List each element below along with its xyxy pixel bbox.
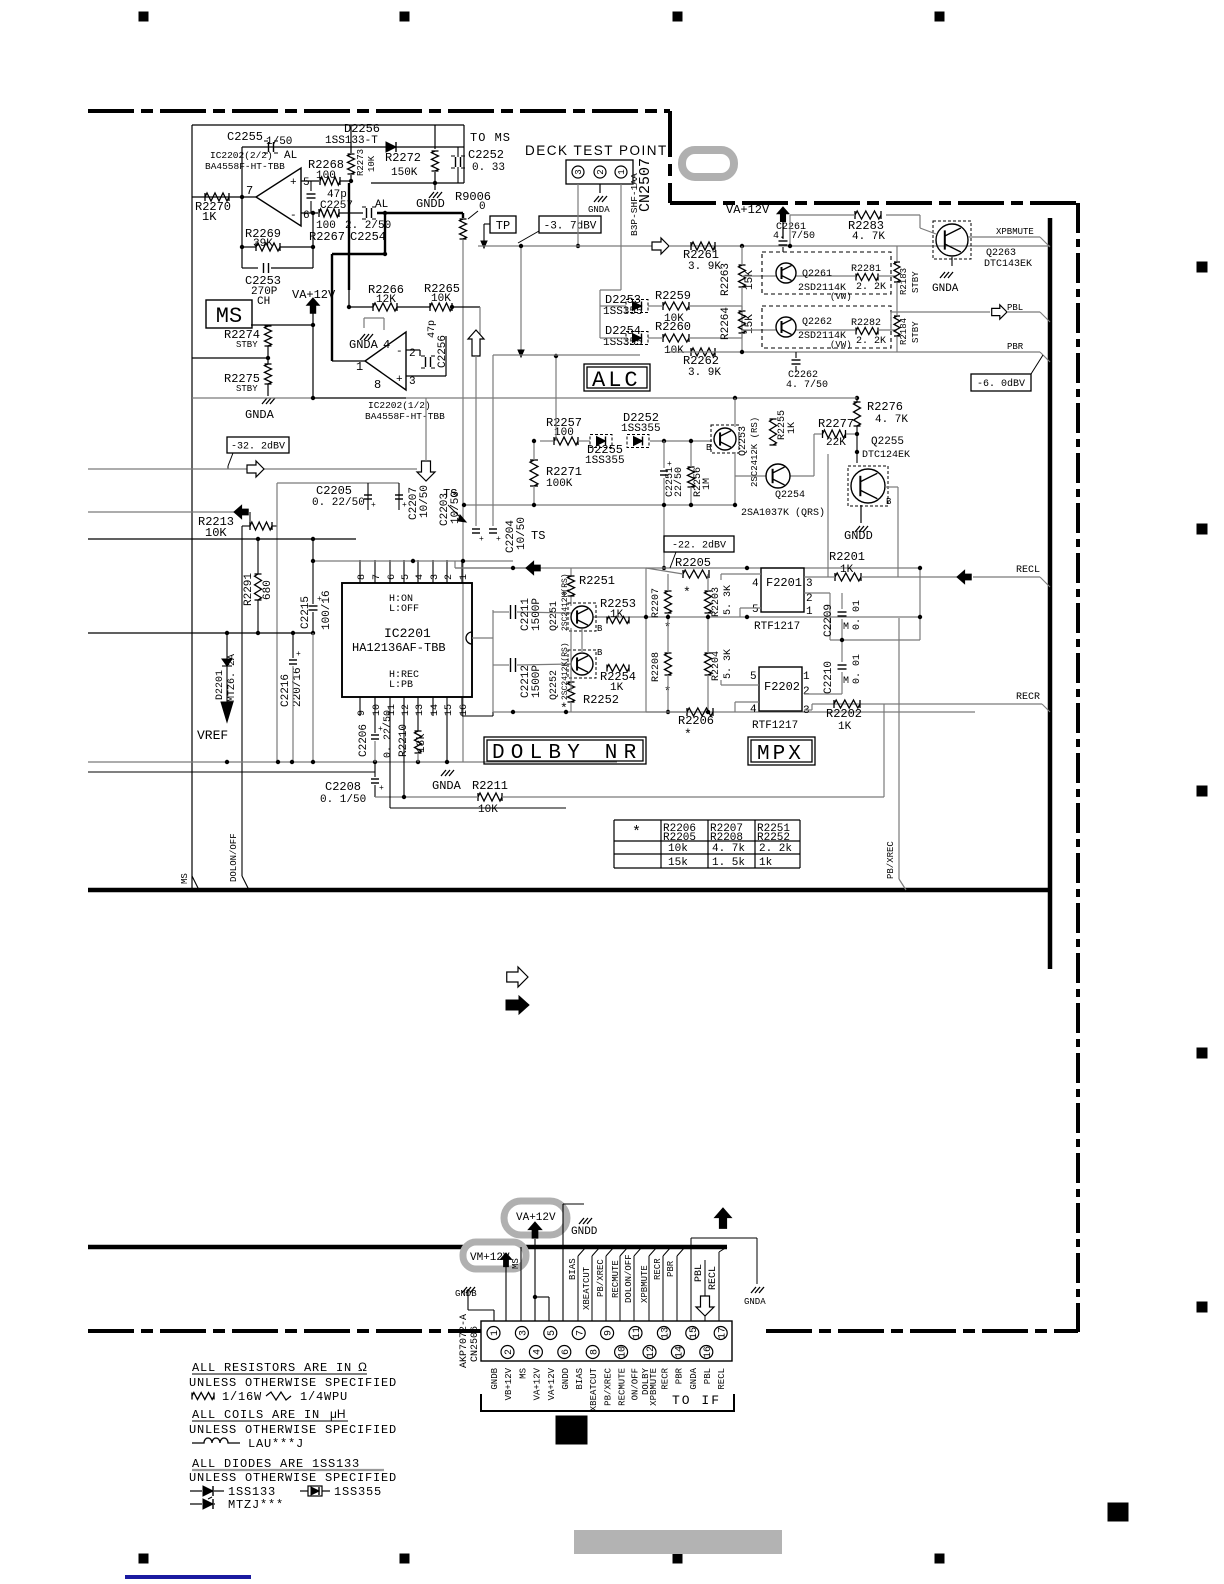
svg-text:M: M (843, 622, 849, 633)
svg-text:GNDA: GNDA (349, 338, 379, 352)
svg-text:4: 4 (415, 574, 426, 580)
svg-text:Q2255: Q2255 (871, 436, 904, 448)
svg-text:39K: 39K (253, 238, 273, 250)
svg-text:220/16: 220/16 (292, 667, 304, 707)
svg-text:4. 7k: 4. 7k (712, 843, 745, 855)
svg-text:150K: 150K (391, 167, 418, 179)
svg-text:R2203: R2203 (711, 587, 722, 617)
svg-text:B: B (886, 497, 892, 507)
svg-text:IC2202(1/2): IC2202(1/2) (368, 400, 431, 411)
svg-text:STBY: STBY (911, 321, 921, 343)
svg-text:DOLON/OFF: DOLON/OFF (229, 833, 239, 882)
svg-text:1: 1 (806, 606, 813, 618)
svg-text:R2207: R2207 (651, 588, 662, 618)
svg-text:XBEATCUT: XBEATCUT (582, 1266, 592, 1310)
svg-text:GNDD: GNDD (844, 529, 873, 543)
svg-text:GNDB: GNDB (455, 1289, 477, 1299)
svg-text:5: 5 (750, 671, 757, 683)
svg-text:R2291: R2291 (243, 573, 255, 606)
svg-text:C2252: C2252 (468, 148, 504, 162)
svg-text:1500P: 1500P (531, 665, 543, 698)
svg-text:+: + (379, 784, 384, 793)
svg-text:1: 1 (459, 574, 470, 580)
svg-text:BA4558F-HT-TBB: BA4558F-HT-TBB (205, 161, 285, 172)
svg-text:1K: 1K (838, 721, 852, 733)
svg-text:18k: 18k (416, 733, 428, 753)
svg-text:CN2507: CN2507 (637, 158, 654, 212)
svg-text:10K: 10K (478, 804, 498, 816)
svg-text:RECMUTE: RECMUTE (611, 1260, 621, 1298)
svg-text:4. 7K: 4. 7K (875, 414, 908, 426)
svg-text:GNDD: GNDD (571, 1226, 598, 1238)
svg-text:AKP7072-A: AKP7072-A (459, 1314, 470, 1368)
svg-text:XPBMUTE: XPBMUTE (996, 227, 1034, 237)
svg-text:Q2252: Q2252 (549, 670, 560, 700)
svg-text:MS: MS (180, 873, 190, 884)
svg-text:DTC124EK: DTC124EK (862, 450, 910, 461)
svg-text:14: 14 (430, 704, 441, 716)
svg-text:-: - (290, 210, 297, 222)
svg-text:2: 2 (444, 574, 455, 580)
svg-text:*: * (560, 589, 568, 604)
svg-text:13: 13 (415, 704, 426, 716)
svg-text:R2259: R2259 (655, 289, 691, 303)
svg-text:+: + (296, 650, 301, 659)
svg-text:GNDA: GNDA (932, 283, 959, 295)
svg-text:7: 7 (575, 1330, 586, 1336)
svg-text:GNDA: GNDA (588, 205, 610, 215)
svg-text:R2263: R2263 (720, 263, 732, 296)
svg-text:15: 15 (444, 704, 455, 716)
svg-text:RECL: RECL (717, 1368, 727, 1390)
svg-text:3: 3 (574, 169, 584, 174)
svg-text:μH: μH (330, 1407, 346, 1421)
svg-text:10k: 10k (668, 843, 688, 855)
svg-text:PBR: PBR (666, 1260, 676, 1277)
svg-text:RECMUTE: RECMUTE (618, 1368, 628, 1406)
svg-text:1/50: 1/50 (266, 136, 292, 148)
svg-text:D2256: D2256 (344, 122, 380, 136)
svg-text:RTF1217: RTF1217 (754, 621, 800, 633)
svg-text:UNLESS OTHERWISE SPECIFIED: UNLESS OTHERWISE SPECIFIED (189, 1471, 397, 1485)
svg-text:VA+12V: VA+12V (516, 1212, 556, 1224)
svg-text:4: 4 (383, 338, 390, 352)
svg-text:1: 1 (617, 169, 627, 174)
svg-text:R2262: R2262 (683, 354, 719, 368)
svg-text:5: 5 (547, 1330, 558, 1336)
svg-text:17: 17 (717, 1327, 728, 1339)
svg-text:C2257: C2257 (320, 200, 353, 212)
svg-text:1: 1 (490, 1330, 501, 1336)
svg-text:10/50: 10/50 (419, 485, 431, 518)
svg-text:CN2506: CN2506 (470, 1326, 481, 1362)
svg-text:7: 7 (246, 184, 253, 198)
svg-text:100K: 100K (546, 478, 573, 490)
svg-text:15: 15 (689, 1327, 700, 1339)
svg-text:XBEATCUT: XBEATCUT (589, 1367, 599, 1411)
svg-text:MS: MS (518, 1368, 528, 1379)
svg-text:C2255: C2255 (227, 130, 263, 144)
svg-text:R2282: R2282 (851, 318, 881, 329)
svg-text:R2276: R2276 (867, 400, 903, 414)
svg-text:1M: 1M (702, 478, 713, 490)
svg-text:+: + (371, 501, 376, 510)
svg-text:R2205: R2205 (675, 556, 711, 570)
svg-text:1SS355: 1SS355 (334, 1485, 382, 1499)
svg-text:*: * (560, 701, 568, 716)
svg-text:1SS133-T: 1SS133-T (325, 135, 378, 147)
svg-text:DOLBY: DOLBY (641, 1367, 651, 1395)
svg-text:C2208: C2208 (325, 780, 361, 794)
svg-text:R2208: R2208 (651, 652, 662, 682)
svg-text:VB+12V: VB+12V (504, 1367, 514, 1400)
svg-text:3: 3 (519, 1330, 530, 1336)
svg-text:Ω: Ω (358, 1360, 367, 1374)
svg-text:4. 7/50: 4. 7/50 (773, 230, 815, 242)
svg-text:RTF1217: RTF1217 (752, 720, 798, 732)
svg-text:F2201: F2201 (766, 576, 802, 590)
svg-text:1K: 1K (787, 422, 798, 434)
svg-text:10K: 10K (367, 155, 377, 172)
svg-text:1K: 1K (202, 210, 217, 224)
svg-text:B: B (597, 624, 603, 634)
svg-text:-32. 2dBV: -32. 2dBV (231, 441, 285, 453)
svg-text:2: 2 (504, 1349, 515, 1355)
svg-text:5: 5 (401, 574, 412, 580)
svg-text:8: 8 (374, 378, 381, 392)
svg-text:R2211: R2211 (472, 779, 508, 793)
svg-text:DOLBY NR: DOLBY NR (492, 742, 642, 765)
svg-text:+: + (317, 595, 322, 604)
svg-text:Q2253: Q2253 (738, 426, 749, 456)
svg-text:(VW): (VW) (830, 340, 852, 350)
svg-text:PB/XREC: PB/XREC (886, 841, 896, 879)
svg-text:R2281: R2281 (851, 264, 881, 275)
svg-text:VA+12V: VA+12V (547, 1367, 557, 1400)
svg-text:1K: 1K (610, 682, 624, 694)
svg-text:F2202: F2202 (764, 680, 800, 694)
svg-text:*: * (683, 585, 691, 600)
svg-text:7: 7 (372, 574, 383, 580)
svg-text:5. 3K: 5. 3K (723, 649, 734, 679)
svg-text:4. 7/50: 4. 7/50 (786, 379, 828, 391)
svg-text:8: 8 (589, 1349, 600, 1355)
svg-text:12: 12 (646, 1346, 657, 1358)
svg-text:GNDA: GNDA (432, 779, 462, 793)
svg-text:GNDA: GNDA (744, 1297, 766, 1307)
svg-text:1/4WPU: 1/4WPU (300, 1390, 348, 1404)
svg-text:GNDA: GNDA (689, 1367, 699, 1389)
svg-text:-22. 2dBV: -22. 2dBV (672, 540, 726, 552)
svg-text:2: 2 (596, 169, 606, 174)
svg-text:ALC: ALC (592, 368, 641, 393)
svg-text:LAU***J: LAU***J (248, 1437, 304, 1451)
svg-text:BIAS: BIAS (575, 1368, 585, 1390)
svg-text:(VW): (VW) (830, 292, 852, 302)
svg-text:4: 4 (752, 578, 759, 590)
svg-text:CH: CH (257, 296, 270, 308)
svg-text:MS: MS (511, 1258, 521, 1269)
svg-text:Q2251: Q2251 (549, 601, 560, 631)
svg-text:R2260: R2260 (655, 320, 691, 334)
svg-text:TO MS: TO MS (470, 131, 511, 145)
svg-text:3: 3 (806, 578, 813, 590)
svg-text:2. 2k: 2. 2k (759, 843, 792, 855)
svg-text:15K: 15K (744, 270, 756, 290)
svg-text:TP: TP (496, 219, 510, 233)
svg-text:IC2201: IC2201 (384, 626, 431, 641)
svg-text:1/16W: 1/16W (222, 1390, 262, 1404)
svg-text:HA12136AF-TBB: HA12136AF-TBB (352, 641, 446, 655)
svg-text:GNDA: GNDA (245, 408, 275, 422)
svg-text:+: + (479, 535, 484, 544)
svg-text:R2251: R2251 (579, 574, 615, 588)
svg-text:STBY: STBY (236, 384, 258, 394)
svg-text:C2254: C2254 (350, 230, 386, 244)
svg-text:680: 680 (262, 580, 274, 600)
svg-text:VREF: VREF (197, 728, 228, 743)
svg-text:0. 01: 0. 01 (852, 600, 863, 630)
svg-text:RECR: RECR (1016, 692, 1040, 703)
svg-text:BIAS: BIAS (568, 1258, 578, 1280)
svg-text:B: B (597, 648, 603, 658)
svg-text:VA+12V: VA+12V (532, 1367, 542, 1400)
svg-text:RECR: RECR (653, 1258, 663, 1280)
svg-text:5. 3K: 5. 3K (723, 585, 734, 615)
svg-text:R2271: R2271 (546, 465, 582, 479)
svg-text:22/50: 22/50 (673, 467, 685, 497)
svg-text:2: 2 (803, 686, 810, 698)
svg-text:1SS133: 1SS133 (228, 1485, 276, 1499)
svg-text:3: 3 (430, 574, 441, 580)
svg-text:6: 6 (561, 1349, 572, 1355)
svg-text:GNDD: GNDD (561, 1368, 571, 1390)
svg-text:-6. 0dBV: -6. 0dBV (977, 378, 1025, 390)
svg-text:C2215: C2215 (300, 596, 312, 629)
svg-text:IC2202(2/2): IC2202(2/2) (210, 150, 273, 161)
svg-text:10K: 10K (664, 345, 684, 357)
svg-text:16: 16 (459, 704, 470, 716)
svg-text:R2206: R2206 (678, 714, 714, 728)
svg-text:8: 8 (357, 574, 368, 580)
svg-text:PB/XREC: PB/XREC (596, 1259, 606, 1297)
svg-text:L:OFF: L:OFF (389, 604, 419, 615)
svg-text:1k: 1k (759, 857, 773, 869)
svg-text:R2201: R2201 (829, 550, 865, 564)
svg-text:13: 13 (661, 1327, 672, 1339)
svg-text:5: 5 (752, 604, 759, 616)
svg-text:0. 22/50: 0. 22/50 (312, 497, 365, 509)
svg-text:+: + (402, 501, 407, 510)
svg-text:2: 2 (806, 593, 813, 605)
svg-text:R2252: R2252 (583, 693, 619, 707)
svg-text:DECK TEST POINT: DECK TEST POINT (525, 143, 668, 158)
svg-text:RECL: RECL (708, 1266, 719, 1290)
svg-text:0. 1/50: 0. 1/50 (320, 794, 366, 806)
svg-text:PB/XREC: PB/XREC (604, 1367, 614, 1405)
svg-text:9: 9 (357, 710, 368, 716)
svg-text:10: 10 (372, 704, 383, 716)
svg-text:BA4558F-HT-TBB: BA4558F-HT-TBB (365, 411, 445, 422)
svg-text:14: 14 (675, 1346, 686, 1358)
svg-text:12: 12 (401, 704, 412, 716)
svg-text:C2206: C2206 (358, 724, 370, 757)
svg-text:C2205: C2205 (316, 484, 352, 498)
svg-text:PBL: PBL (703, 1368, 713, 1384)
svg-text:3: 3 (803, 705, 810, 717)
svg-text:1SS355: 1SS355 (585, 455, 625, 467)
svg-text:Q2262: Q2262 (802, 317, 832, 328)
svg-text:XPBMUTE: XPBMUTE (640, 1265, 650, 1303)
svg-text:VA+12V: VA+12V (726, 203, 770, 217)
svg-text:C2256: C2256 (437, 335, 449, 368)
svg-text:PBR: PBR (1007, 342, 1024, 352)
svg-text:6: 6 (303, 210, 310, 222)
svg-text:R2183: R2183 (899, 268, 909, 295)
svg-text:M: M (843, 676, 849, 687)
svg-text:TS: TS (531, 529, 545, 543)
svg-text:-3. 7dBV: -3. 7dBV (544, 220, 597, 232)
svg-text:6: 6 (387, 574, 398, 580)
svg-text:TO IF: TO IF (672, 1393, 721, 1408)
svg-text:R9006: R9006 (455, 190, 491, 204)
svg-text:RECR: RECR (660, 1367, 670, 1389)
svg-text:+: + (396, 374, 403, 386)
svg-text:1. 5k: 1. 5k (712, 857, 745, 869)
svg-text:4: 4 (750, 704, 757, 716)
svg-text:GNDD: GNDD (416, 197, 445, 211)
svg-text:B: B (706, 443, 712, 453)
svg-text:Q2254: Q2254 (775, 490, 805, 501)
svg-text:R2267: R2267 (309, 230, 345, 244)
svg-text:C2216: C2216 (280, 674, 292, 707)
svg-text:MTZJ***: MTZJ*** (228, 1498, 284, 1512)
svg-text:ALL COILS ARE IN: ALL COILS ARE IN (192, 1408, 320, 1422)
svg-text:DOLON/OFF: DOLON/OFF (624, 1254, 634, 1303)
svg-text:R2264: R2264 (720, 307, 732, 340)
svg-text:10/50: 10/50 (516, 517, 528, 550)
svg-text:0. 22/50: 0. 22/50 (382, 710, 394, 758)
svg-text:12K: 12K (376, 294, 396, 306)
svg-text:STBY: STBY (911, 271, 921, 293)
svg-text:+: + (496, 535, 501, 544)
svg-text:100: 100 (316, 170, 336, 182)
svg-text:R2261: R2261 (683, 248, 719, 262)
svg-text:PBR: PBR (674, 1367, 684, 1384)
svg-text:3: 3 (409, 376, 416, 388)
svg-text:Q2261: Q2261 (802, 269, 832, 280)
svg-text:10K: 10K (431, 293, 451, 305)
svg-text:MPX: MPX (757, 743, 804, 766)
svg-text:ALL RESISTORS ARE IN: ALL RESISTORS ARE IN (192, 1361, 352, 1375)
svg-text:10K: 10K (205, 526, 227, 540)
svg-text:11: 11 (632, 1327, 643, 1339)
svg-text:16: 16 (703, 1346, 714, 1358)
svg-text:15k: 15k (668, 857, 688, 869)
svg-text:*: * (684, 727, 692, 742)
svg-text:C2210: C2210 (823, 661, 835, 694)
svg-text:1500P: 1500P (531, 598, 543, 631)
svg-text:*: * (632, 824, 641, 841)
svg-text:D2201: D2201 (215, 670, 226, 700)
svg-text:0. 33: 0. 33 (472, 162, 505, 174)
svg-text:2. 2K: 2. 2K (856, 336, 886, 347)
svg-text:4: 4 (533, 1349, 544, 1355)
svg-text:R2204: R2204 (711, 651, 722, 681)
svg-text:R2184: R2184 (899, 318, 909, 345)
svg-text:1: 1 (356, 360, 363, 374)
svg-text:10: 10 (618, 1346, 629, 1358)
svg-text:UNLESS OTHERWISE SPECIFIED: UNLESS OTHERWISE SPECIFIED (189, 1376, 397, 1390)
svg-text:R2202: R2202 (826, 707, 862, 721)
svg-text:1: 1 (803, 671, 810, 683)
svg-text:R2277: R2277 (818, 417, 854, 431)
svg-text:RECL: RECL (1016, 565, 1040, 576)
svg-text:UNLESS OTHERWISE SPECIFIED: UNLESS OTHERWISE SPECIFIED (189, 1423, 397, 1437)
svg-text:Q2263: Q2263 (986, 248, 1016, 259)
svg-text:R2273: R2273 (356, 149, 366, 176)
svg-text:5: 5 (303, 177, 310, 189)
svg-text:100/16: 100/16 (321, 590, 333, 630)
svg-text:R2272: R2272 (385, 151, 421, 165)
svg-text:4. 7K: 4. 7K (852, 231, 885, 243)
svg-text:3. 9K: 3. 9K (688, 367, 721, 379)
svg-text:AL: AL (284, 150, 297, 162)
svg-text:2. 2K: 2. 2K (856, 282, 886, 293)
svg-text:DTC143EK: DTC143EK (984, 259, 1032, 270)
svg-text:AL: AL (375, 199, 388, 211)
svg-text:L:PB: L:PB (389, 680, 413, 691)
svg-text:GNDB: GNDB (490, 1367, 500, 1389)
svg-text:+: + (290, 177, 297, 189)
svg-text:ON/OFF: ON/OFF (631, 1368, 641, 1400)
svg-text:2SA1037K (QRS): 2SA1037K (QRS) (741, 507, 825, 519)
svg-text:1SS355: 1SS355 (621, 423, 661, 435)
svg-text:+: + (667, 460, 672, 469)
svg-text:9: 9 (604, 1330, 615, 1336)
svg-text:TS: TS (443, 487, 457, 501)
svg-text:MS: MS (216, 304, 242, 329)
svg-text:3. 9K: 3. 9K (688, 261, 721, 273)
svg-text:0. 01: 0. 01 (852, 654, 863, 684)
svg-text:PBL: PBL (694, 1264, 705, 1282)
svg-text:0: 0 (479, 201, 486, 213)
svg-text:STBY: STBY (236, 340, 258, 350)
svg-text:C2209: C2209 (823, 604, 835, 637)
svg-text:-: - (396, 346, 403, 358)
